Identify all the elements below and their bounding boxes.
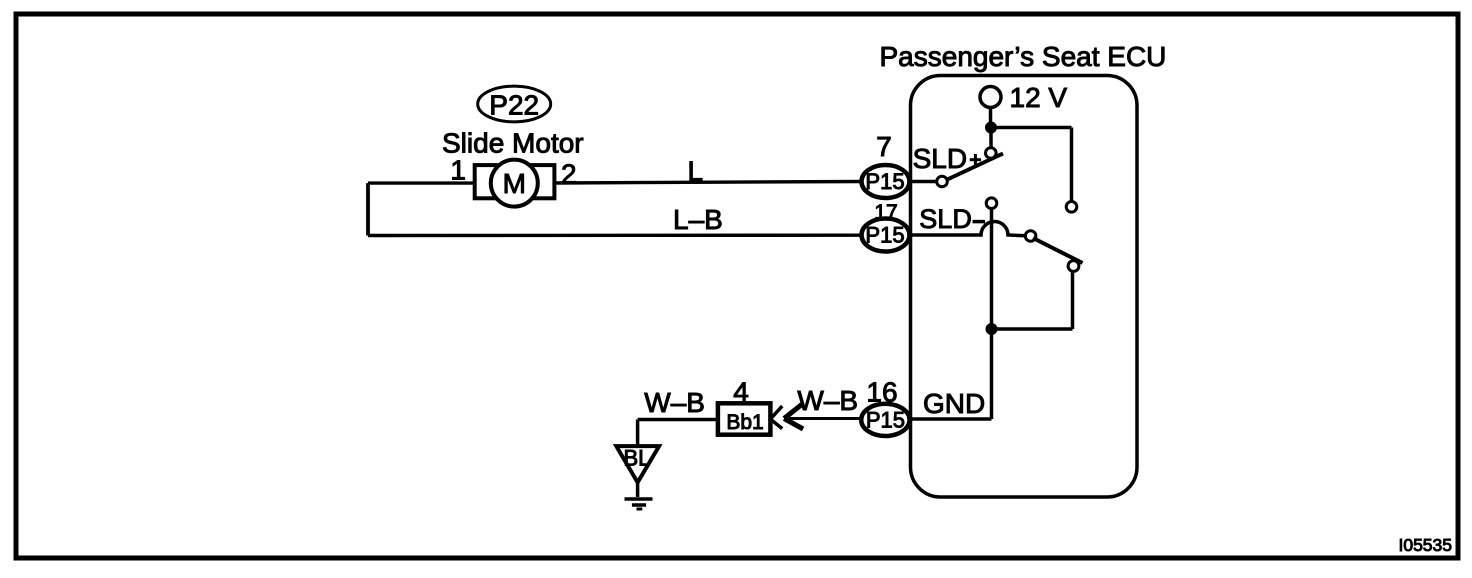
- svg-text:P15: P15: [865, 223, 904, 248]
- svg-text:12 V: 12 V: [1010, 82, 1068, 113]
- svg-text:P15: P15: [865, 169, 904, 194]
- svg-text:W–B: W–B: [797, 385, 858, 416]
- svg-text:BL: BL: [624, 446, 651, 471]
- svg-text:M: M: [503, 168, 526, 199]
- svg-text:SLD: SLD: [919, 204, 972, 234]
- svg-text:W–B: W–B: [644, 387, 705, 418]
- svg-text:GND: GND: [923, 388, 985, 419]
- svg-text:I05535: I05535: [1398, 535, 1452, 555]
- svg-text:P15: P15: [866, 408, 905, 433]
- svg-text:SLD: SLD: [913, 143, 967, 174]
- svg-text:L: L: [688, 156, 704, 187]
- svg-text:2: 2: [561, 159, 577, 190]
- svg-text:1: 1: [450, 155, 466, 186]
- svg-text:Passenger’s Seat ECU: Passenger’s Seat ECU: [880, 41, 1167, 72]
- svg-text:P22: P22: [489, 90, 539, 121]
- svg-text:L–B: L–B: [673, 204, 723, 235]
- svg-text:7: 7: [876, 131, 892, 162]
- svg-text:Bb1: Bb1: [726, 411, 763, 434]
